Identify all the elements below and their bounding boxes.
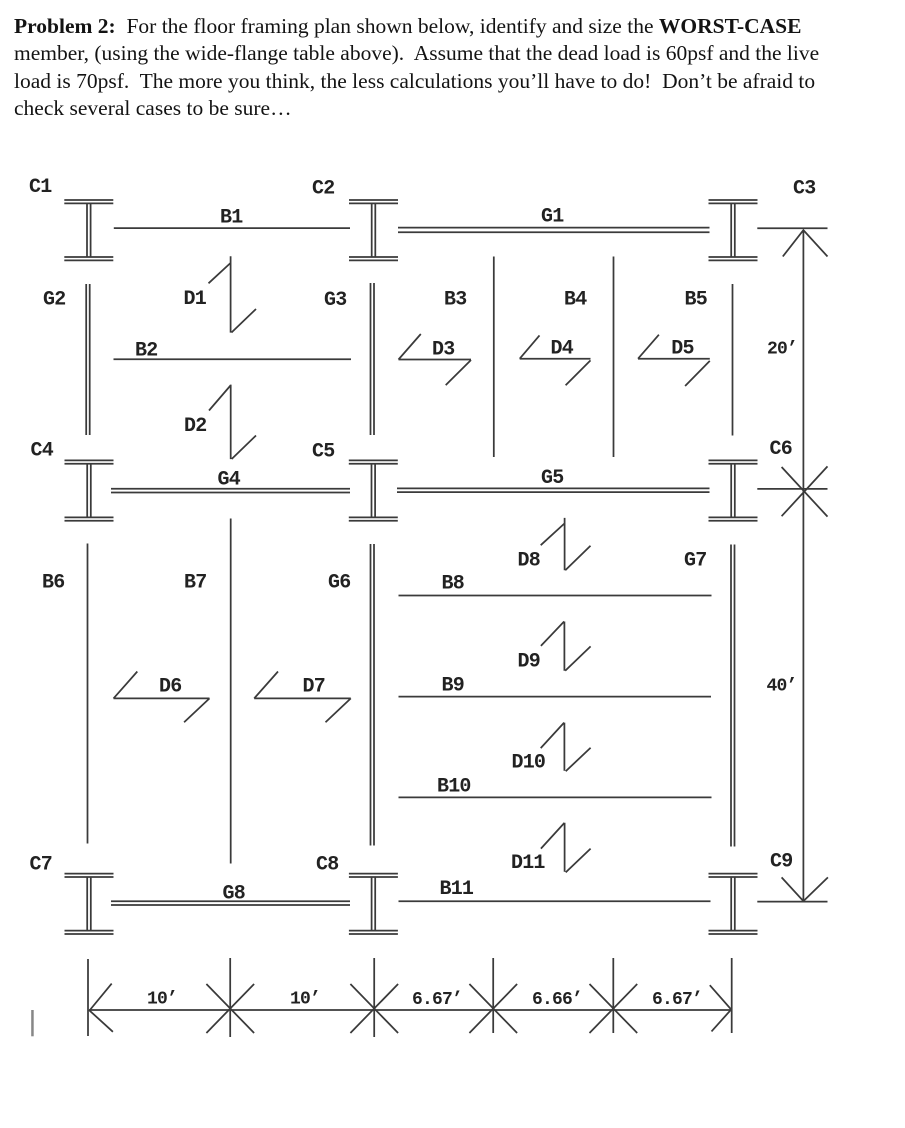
- svg-text:B4: B4: [564, 289, 587, 312]
- bottom dimension station 2 vertical: [373, 958, 375, 1037]
- bottom dimension station 5 vertical: [731, 958, 733, 1033]
- svg-text:D11: D11: [511, 852, 545, 875]
- deck symbol D9: [541, 622, 591, 671]
- svg-text:B1: B1: [220, 207, 243, 230]
- girder G4 double line: [111, 489, 350, 493]
- girder G7 double line: [731, 545, 735, 847]
- column C2: [349, 200, 398, 260]
- cursor artifact: [31, 1010, 34, 1036]
- beam B11 line: [399, 900, 711, 902]
- bottom dimension right arrowhead: [710, 985, 731, 1031]
- deck symbol D6: [114, 672, 210, 723]
- svg-text:C3: C3: [793, 178, 815, 201]
- svg-text:6.66’: 6.66’: [532, 990, 582, 1010]
- bottom dimension station 4 vertical: [612, 958, 614, 1033]
- deck symbol D5: [638, 335, 710, 386]
- bottom dimension station 3 X mark: [469, 984, 517, 1033]
- right dimension top arrowhead: [783, 230, 828, 256]
- svg-text:10’: 10’: [147, 990, 177, 1010]
- column C8: [349, 874, 398, 934]
- bottom dimension station 2 X mark: [350, 984, 398, 1033]
- column C3: [709, 200, 758, 260]
- deck symbol D3: [399, 334, 472, 385]
- beam B7 line: [230, 519, 232, 864]
- svg-text:B3: B3: [444, 289, 466, 312]
- column C1: [64, 200, 113, 260]
- deck symbol D2: [209, 385, 256, 460]
- svg-text:6.67’: 6.67’: [652, 990, 702, 1010]
- column C7: [65, 874, 114, 934]
- svg-text:D8: D8: [518, 550, 540, 573]
- svg-text:C2: C2: [312, 178, 334, 201]
- girder G3 double line: [371, 283, 375, 435]
- svg-text:D7: D7: [303, 676, 325, 699]
- svg-text:G4: G4: [218, 469, 241, 492]
- beam B10 line: [399, 796, 712, 798]
- deck symbol D8: [541, 518, 591, 570]
- svg-text:D6: D6: [159, 676, 181, 699]
- bottom dimension station 4 X mark: [590, 984, 638, 1033]
- svg-text:B2: B2: [135, 340, 157, 363]
- beam B3 line: [493, 257, 495, 458]
- svg-text:G8: G8: [223, 883, 245, 906]
- svg-text:G3: G3: [324, 289, 346, 312]
- bottom dimension line: [89, 1009, 732, 1011]
- svg-text:G7: G7: [684, 550, 706, 573]
- svg-text:D9: D9: [518, 651, 540, 674]
- svg-text:D3: D3: [432, 339, 454, 362]
- svg-text:D5: D5: [671, 338, 693, 361]
- beam B5 line: [732, 284, 734, 436]
- girder G8 double line: [111, 901, 350, 905]
- svg-text:D4: D4: [551, 338, 574, 361]
- right dimension top tick: [757, 227, 827, 229]
- deck symbol D7: [254, 672, 351, 723]
- right dimension bottom tick: [757, 901, 827, 903]
- column C5: [349, 460, 398, 520]
- svg-text:40’: 40’: [767, 677, 797, 697]
- svg-text:B5: B5: [685, 289, 707, 312]
- svg-text:D1: D1: [184, 288, 207, 311]
- svg-text:G1: G1: [541, 206, 564, 229]
- column C9: [709, 874, 758, 934]
- column C4: [65, 460, 114, 520]
- bottom dimension left arrowhead: [90, 984, 113, 1032]
- column C6: [709, 460, 758, 520]
- beam B6 line: [87, 544, 89, 844]
- beam B1 line: [114, 227, 350, 229]
- svg-text:D10: D10: [512, 752, 546, 775]
- svg-text:G5: G5: [541, 467, 563, 490]
- beam B4 line: [613, 257, 615, 458]
- right dimension middle tick: [757, 488, 827, 490]
- svg-text:G2: G2: [43, 289, 65, 312]
- deck symbol D4: [520, 335, 591, 385]
- svg-text:C5: C5: [312, 441, 334, 464]
- girder G2 double line: [86, 284, 90, 435]
- svg-text:B9: B9: [442, 675, 464, 698]
- svg-text:B7: B7: [184, 572, 206, 595]
- deck symbol D10: [541, 723, 591, 772]
- svg-text:D2: D2: [184, 415, 206, 438]
- right dimension X mark: [782, 466, 828, 516]
- bottom dimension station 1 X mark: [206, 984, 254, 1033]
- deck symbol D1: [209, 256, 257, 332]
- girder G6 double line: [371, 544, 375, 846]
- svg-text:C4: C4: [31, 440, 54, 463]
- svg-text:C9: C9: [770, 851, 792, 874]
- beam B8 line: [399, 595, 712, 597]
- bottom dimension station 3 vertical: [492, 958, 494, 1033]
- svg-text:B10: B10: [437, 776, 471, 799]
- beam B2 line: [114, 358, 352, 360]
- bottom dimension station 1 vertical: [229, 958, 231, 1037]
- bottom dimension station 0 vertical: [87, 959, 89, 1036]
- svg-text:6.67’: 6.67’: [412, 990, 462, 1010]
- right dimension line: [802, 230, 804, 901]
- svg-text:G6: G6: [328, 572, 350, 595]
- girder G5 double line: [397, 488, 710, 492]
- svg-text:C6: C6: [770, 438, 792, 461]
- svg-text:C8: C8: [316, 854, 338, 877]
- svg-text:C1: C1: [29, 176, 52, 199]
- beam B9 line: [399, 696, 712, 698]
- right dimension bottom arrowhead: [782, 877, 828, 901]
- deck symbol D11: [541, 823, 591, 873]
- svg-text:10’: 10’: [290, 990, 320, 1010]
- svg-text:B11: B11: [440, 878, 474, 901]
- svg-text:C7: C7: [30, 854, 52, 877]
- svg-text:B6: B6: [42, 572, 64, 595]
- svg-text:B8: B8: [442, 573, 464, 596]
- girder G1 double line: [398, 228, 710, 233]
- svg-text:20’: 20’: [767, 340, 797, 360]
